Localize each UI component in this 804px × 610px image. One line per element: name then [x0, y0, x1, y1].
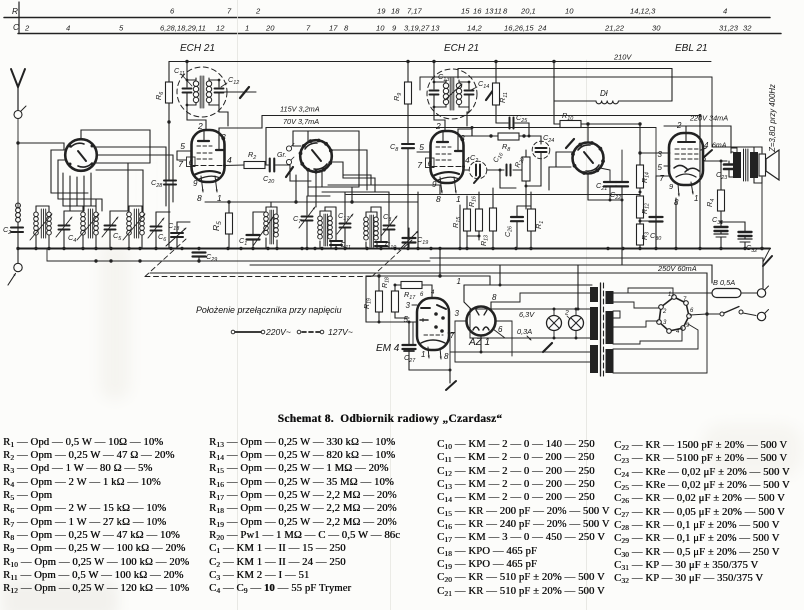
- capacitor C29: [193, 253, 206, 262]
- svg-text:250V 60mA: 250V 60mA: [657, 264, 697, 273]
- terminal strip R line: [4, 17, 770, 19]
- resistor R14: [637, 124, 644, 196]
- svg-text:8: 8: [344, 24, 349, 33]
- trimmer C5: [102, 211, 128, 248]
- wire mixer bottom 1: [315, 172, 317, 207]
- label R17: [404, 290, 435, 301]
- wire long run y175: [343, 175, 371, 185]
- svg-text:8: 8: [444, 352, 449, 361]
- wire third top line: [420, 77, 754, 147]
- label R1: [534, 221, 545, 229]
- label C16: [492, 150, 505, 164]
- resistor R12: [637, 196, 644, 224]
- wire osc2 to tube: [434, 107, 469, 130]
- wire heater bottom: [470, 337, 592, 340]
- label polozenie: [196, 305, 342, 315]
- svg-text:210V: 210V: [613, 53, 632, 62]
- wire switch right 2: [96, 155, 173, 202]
- resistor R5: [205, 202, 233, 249]
- label ECH 21 first: [180, 43, 215, 54]
- svg-text:1: 1: [456, 194, 461, 204]
- switch blade near C14: [445, 84, 494, 100]
- label C24: [543, 133, 554, 144]
- earth plug: [8, 248, 22, 285]
- svg-text:C14: C14: [478, 79, 489, 90]
- wire heater left: [469, 309, 471, 338]
- svg-text:9: 9: [669, 182, 674, 191]
- svg-text:7,17: 7,17: [407, 7, 423, 16]
- wire EBL plate feed: [664, 126, 731, 153]
- svg-text:9: 9: [392, 24, 397, 33]
- fold line artifacts: [238, 0, 587, 610]
- svg-text:20: 20: [265, 24, 275, 33]
- terminal 1: [741, 286, 769, 297]
- wire antenna down: [17, 119, 19, 209]
- capacitor C1: [247, 212, 267, 249]
- svg-text:ECH 21: ECH 21: [444, 43, 479, 54]
- wire heater line b: [250, 265, 712, 283]
- wire EBL pin3: [640, 152, 666, 154]
- svg-text:20,1: 20,1: [520, 7, 536, 16]
- switch blade near C12: [224, 87, 256, 98]
- svg-text:10: 10: [376, 24, 385, 33]
- wire heater feed drop: [499, 265, 580, 311]
- osc transformer L6: [318, 207, 336, 249]
- svg-text:4: 4: [66, 24, 70, 33]
- capacitor C25: [496, 118, 529, 137]
- wire mixer bottom 2: [308, 170, 330, 196]
- capacitor C32: [721, 222, 752, 249]
- trimmer C6: [148, 212, 170, 248]
- transformer L4: [123, 206, 145, 249]
- osc transformer T2 left coil: [434, 80, 449, 107]
- wire AVC to EM4: [366, 276, 417, 324]
- svg-text:C17: C17: [338, 211, 350, 222]
- svg-text:C26: C26: [504, 226, 514, 237]
- second bus dots: [94, 259, 200, 262]
- svg-text:R9: R9: [392, 93, 403, 101]
- label ECH 21 second: [444, 43, 479, 54]
- label R6: [154, 92, 165, 100]
- wire selector 1: [628, 288, 673, 296]
- wire mixer right 2: [332, 162, 376, 192]
- svg-text:9: 9: [193, 179, 198, 188]
- wire 70V line: [266, 128, 656, 166]
- node R9 top: [406, 60, 409, 63]
- svg-text:R19: R19: [363, 298, 373, 309]
- node C11 top: [185, 60, 188, 63]
- svg-text:2: 2: [435, 121, 441, 131]
- fuse B 0,5A: [712, 289, 741, 298]
- tube V3 ECH21: [431, 131, 464, 183]
- wire pin8 down: [675, 198, 677, 249]
- trimmer C3: [375, 192, 397, 249]
- svg-text:16: 16: [473, 7, 482, 16]
- wire switch left 1: [51, 150, 66, 193]
- speaker: [759, 150, 779, 180]
- svg-text:6: 6: [498, 325, 503, 334]
- svg-text:R4: R4: [705, 199, 716, 207]
- capacitor C20: [270, 159, 290, 172]
- svg-text:6: 6: [170, 7, 175, 16]
- wire second top line: [458, 69, 672, 102]
- svg-text:13: 13: [431, 24, 440, 33]
- svg-text:C7: C7: [293, 214, 302, 225]
- wire 70V end: [655, 128, 657, 177]
- svg-text:21,22: 21,22: [604, 24, 625, 33]
- svg-text:7: 7: [450, 331, 455, 340]
- svg-text:1: 1: [668, 292, 671, 298]
- label R2: [248, 150, 256, 161]
- label R19: [363, 298, 373, 309]
- label R16: [468, 196, 478, 207]
- node switch feed: [705, 312, 720, 315]
- label C27: [404, 353, 416, 364]
- svg-text:18: 18: [391, 7, 400, 16]
- power transformer core: [601, 283, 604, 376]
- svg-text:Położenie przełącznika przy: Położenie przełącznika przy napięciu: [196, 305, 342, 315]
- svg-text:3: 3: [460, 133, 465, 143]
- label R13: [480, 235, 490, 246]
- wire switch bottom v2: [69, 176, 71, 211]
- resistor R17: [394, 282, 433, 299]
- svg-text:Dł: Dł: [600, 89, 608, 98]
- svg-text:14,12,3: 14,12,3: [630, 7, 656, 16]
- label C29: [206, 252, 217, 263]
- lamp 2: [569, 309, 584, 338]
- resistor R4: [718, 160, 725, 227]
- capacitor C11b: [330, 207, 342, 249]
- svg-text:C27: C27: [404, 353, 416, 364]
- wire heater line a: [430, 258, 763, 288]
- label B 0,5A: [713, 278, 735, 287]
- wire EBL pin7 down: [656, 176, 666, 249]
- voltage selector: [657, 295, 692, 334]
- wire switch right 3: [96, 139, 150, 163]
- wire V1 pin3 up: [219, 116, 262, 131]
- legend 127V: [297, 327, 353, 337]
- tube V4 triode: [571, 141, 605, 175]
- transformer L2 antenna: [30, 206, 52, 249]
- wire V3 pin3 line: [458, 129, 491, 136]
- antenna symbol: [11, 69, 25, 110]
- C row numbers: [24, 24, 752, 33]
- osc coil 1 shield: [177, 67, 227, 117]
- label R15: [451, 216, 462, 228]
- wire R8 top loop: [471, 126, 474, 136]
- label C19: [417, 235, 428, 246]
- main ground bus: [18, 247, 770, 249]
- svg-text:3: 3: [658, 150, 663, 159]
- bus right end chassis: [763, 249, 772, 267]
- label R14: [641, 172, 651, 183]
- label C18: [168, 221, 179, 232]
- svg-text:C2: C2: [3, 225, 11, 236]
- trimmer C7: [299, 196, 315, 249]
- svg-text:127V~: 127V~: [328, 327, 353, 337]
- svg-text:7: 7: [417, 160, 422, 170]
- svg-text:5: 5: [658, 163, 663, 172]
- wire mixer right 1: [332, 150, 368, 190]
- wire AVC top line: [366, 247, 490, 285]
- label C11b: [340, 240, 351, 251]
- wire AZ1 cathode: [495, 321, 512, 356]
- band switch S1: [65, 139, 97, 171]
- tube V1 pins: [177, 121, 232, 203]
- diode Gr blade: [286, 144, 294, 178]
- wire AZ1 top line: [464, 284, 592, 286]
- wire C24 down: [526, 160, 541, 186]
- capacitor C12: [215, 79, 224, 105]
- svg-text:6,3V: 6,3V: [519, 310, 535, 319]
- label 6,3V: [519, 310, 535, 319]
- label R5: [211, 221, 223, 231]
- svg-text:115V 3,2mA: 115V 3,2mA: [280, 105, 320, 114]
- svg-text:4: 4: [676, 329, 680, 335]
- svg-text:C25: C25: [516, 113, 528, 124]
- svg-text:R6: R6: [154, 92, 165, 100]
- label AZ 1: [468, 337, 490, 348]
- svg-text:11: 11: [494, 7, 502, 16]
- svg-text:14,2: 14,2: [467, 24, 483, 33]
- wire screen drop: [699, 114, 702, 249]
- tube V3 pins: [417, 121, 470, 204]
- label C row: [13, 23, 19, 32]
- svg-text:8: 8: [436, 194, 441, 204]
- tube V7 AZ1: [467, 307, 496, 336]
- wire mixer grid1: [293, 145, 301, 147]
- wire lattice v4: [128, 147, 157, 212]
- svg-text:7: 7: [660, 174, 665, 183]
- capacitor C16: [499, 165, 523, 176]
- resistor R8: [489, 133, 530, 140]
- label C10: [385, 240, 396, 251]
- wire mixer top loop: [293, 131, 359, 187]
- svg-text:2: 2: [255, 7, 261, 16]
- label 250V 60mA: [657, 264, 697, 273]
- label C11: [174, 66, 192, 86]
- resistor R10: [554, 121, 642, 128]
- label Dl: [600, 89, 608, 98]
- svg-text:220V 34mA: 220V 34mA: [689, 114, 728, 123]
- wire V4 left hook: [549, 152, 573, 190]
- wire switch right 1: [96, 147, 166, 206]
- label C2: [3, 225, 11, 236]
- label C25: [516, 113, 528, 124]
- label EBL 21: [675, 43, 708, 54]
- svg-text:4: 4: [431, 290, 435, 296]
- osc transformer T1 right coil: [206, 78, 219, 105]
- wire V1 pin5: [177, 151, 186, 160]
- label C32: [746, 243, 757, 254]
- svg-text:24: 24: [537, 24, 546, 33]
- capacitor C27: [403, 322, 416, 370]
- svg-text:C31: C31: [712, 215, 723, 226]
- wire lattice v1: [95, 199, 97, 206]
- label R18: [381, 277, 391, 288]
- wire selector 9: [613, 324, 698, 349]
- svg-text:R17: R17: [404, 290, 416, 301]
- wire 210V top rail: [169, 61, 711, 63]
- resistor R15: [464, 196, 471, 249]
- label C6: [158, 232, 166, 243]
- capacitor C13: [430, 62, 439, 109]
- capacitor C21: [588, 168, 622, 202]
- resistor R18: [392, 285, 410, 318]
- parts list column 2: [209, 436, 400, 596]
- second bus: [47, 249, 430, 262]
- svg-text:R2: R2: [248, 150, 256, 161]
- wire selector 6: [690, 314, 707, 315]
- osc transformer T2 core: [450, 78, 454, 110]
- chassis arrow EM4: [446, 381, 456, 390]
- resistor R9: [405, 62, 412, 144]
- wire selector 4: [613, 328, 682, 345]
- label R row: [12, 7, 18, 16]
- terminal 2: [757, 310, 768, 321]
- svg-text:0,3A: 0,3A: [517, 327, 532, 336]
- wire antenna to switch: [18, 143, 64, 150]
- svg-text:C23: C23: [716, 170, 727, 181]
- label R9: [392, 93, 403, 101]
- capacitor C23: [724, 161, 734, 177]
- wire stair 1: [51, 192, 88, 194]
- svg-text:R18: R18: [381, 277, 391, 288]
- svg-text:70V 3,7mA: 70V 3,7mA: [283, 117, 319, 126]
- blade V4 grid: [566, 139, 574, 148]
- label 210V: [613, 53, 632, 62]
- wire transformer bottom left: [455, 321, 592, 362]
- svg-text:2: 2: [197, 121, 203, 131]
- svg-text:30: 30: [652, 24, 661, 33]
- wire V3 pin down b: [458, 205, 461, 250]
- osc transformer L5: [253, 202, 278, 249]
- svg-text:7: 7: [306, 24, 311, 33]
- svg-text:R: R: [12, 7, 18, 16]
- selector pin labels: [662, 292, 694, 335]
- svg-text:3: 3: [221, 132, 226, 142]
- label C20: [263, 174, 274, 185]
- label Gr: [277, 152, 287, 159]
- tube V1 ECH21: [192, 130, 225, 182]
- wire 115V line: [262, 115, 700, 117]
- wire stair 2: [58, 198, 102, 200]
- bus junction dots: [16, 247, 763, 250]
- antenna plug: [14, 106, 26, 119]
- svg-text:32: 32: [743, 24, 752, 33]
- node R11 top: [494, 60, 497, 63]
- svg-text:ECH 21: ECH 21: [180, 43, 215, 54]
- wire switch top loop: [81, 130, 150, 139]
- svg-text:C28: C28: [151, 178, 162, 189]
- capacitor C30: [640, 214, 663, 249]
- svg-text:B 0,5A: B 0,5A: [713, 278, 735, 287]
- mains switch: [720, 307, 756, 317]
- label C22: [610, 190, 621, 201]
- svg-text:9: 9: [432, 180, 437, 189]
- transformer L3: [77, 206, 99, 249]
- wire EM4 bottom: [409, 333, 452, 383]
- label C28: [151, 178, 162, 189]
- label C4: [68, 233, 76, 244]
- svg-text:C22: C22: [610, 190, 621, 201]
- svg-text:C8: C8: [390, 142, 398, 153]
- blade lamp: [543, 343, 552, 352]
- svg-text:3: 3: [455, 309, 460, 318]
- label R3: [641, 232, 651, 240]
- label R10: [562, 111, 573, 122]
- node bus end: [760, 247, 763, 250]
- svg-text:3: 3: [663, 320, 667, 326]
- capacitor C26: [511, 206, 523, 249]
- svg-text:C4: C4: [68, 233, 76, 244]
- label R8: [502, 142, 510, 153]
- wire secondary mid: [613, 311, 620, 318]
- capacitor C14: [465, 81, 474, 107]
- wire AZ1 pin8 link: [491, 293, 592, 302]
- svg-text:3,19,27: 3,19,27: [404, 24, 430, 33]
- resistor R6: [166, 62, 173, 123]
- terminal strip bracket: [18, 2, 20, 34]
- node R6 bottom: [167, 120, 170, 180]
- label C21: [596, 181, 607, 192]
- wire switch bottom v5: [90, 173, 92, 206]
- svg-text:1: 1: [457, 277, 461, 286]
- wire V4 bottom: [587, 174, 589, 201]
- wire speaker down: [761, 183, 763, 249]
- wire selector 2: [613, 302, 659, 308]
- wire lattice h3: [150, 162, 157, 164]
- svg-text:C18: C18: [168, 221, 179, 232]
- wire R20 lower link: [483, 170, 640, 195]
- tuning cap C19: [399, 228, 418, 250]
- svg-text:10: 10: [565, 7, 574, 16]
- wire heater top: [470, 308, 592, 311]
- label C31: [712, 215, 723, 226]
- label R11: [498, 92, 509, 103]
- svg-text:13: 13: [485, 7, 494, 16]
- osc transformer T2 right coil: [456, 80, 469, 107]
- resistor R16: [467, 192, 483, 240]
- svg-text:C20: C20: [263, 174, 274, 185]
- coil L antenna: [16, 203, 21, 248]
- svg-text:R5: R5: [211, 221, 223, 231]
- capacitor C22: [616, 150, 628, 265]
- wire lattice v2: [101, 199, 103, 211]
- svg-text:C: C: [13, 23, 19, 32]
- label C8: [390, 142, 398, 153]
- svg-text:1: 1: [694, 194, 698, 203]
- resistor R1: [517, 192, 536, 249]
- title caption: [0, 413, 780, 425]
- parts list column 4: [614, 439, 790, 586]
- resistor R11: [493, 62, 500, 124]
- wire switch left 2: [58, 160, 66, 199]
- wire V1 pin4 to R2: [225, 164, 245, 167]
- wire osc1 to tube: [187, 105, 228, 130]
- label C12: [221, 75, 239, 87]
- svg-text:7: 7: [227, 7, 232, 16]
- capacitor C2b: [464, 161, 501, 183]
- svg-text:2: 2: [24, 24, 30, 33]
- svg-text:16,26,15: 16,26,15: [504, 24, 534, 33]
- svg-text:4: 4: [704, 141, 709, 150]
- label C14: [471, 79, 489, 90]
- svg-text:R8: R8: [502, 142, 510, 153]
- svg-text:6mA: 6mA: [712, 143, 727, 150]
- wire switch bottom v1: [62, 173, 64, 206]
- trimmer C17: [337, 192, 353, 249]
